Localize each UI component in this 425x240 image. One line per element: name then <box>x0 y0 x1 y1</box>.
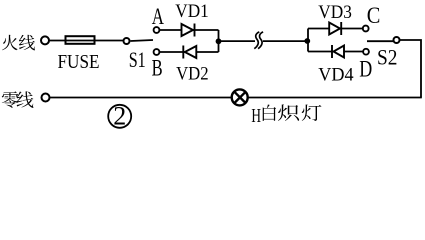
svg-text:B: B <box>152 55 163 80</box>
svg-text:C: C <box>367 3 381 28</box>
svg-text:D: D <box>359 57 372 82</box>
wire, S2 blade <box>367 40 394 42</box>
label 白炽灯 char 灯 <box>302 105 322 121</box>
svg-text:VD1: VD1 <box>175 1 209 22</box>
terminal D <box>363 49 369 55</box>
diode VD3 <box>329 22 341 35</box>
wire, neutral terminal to lamp <box>50 97 233 99</box>
fuse FUSE <box>66 36 95 44</box>
wire, lamp to right edge <box>248 97 422 99</box>
label 零线 char 零 <box>2 91 19 107</box>
switch S2 common terminal <box>394 37 400 43</box>
lamp H (incandescent) <box>232 89 248 105</box>
terminal B <box>154 49 160 55</box>
wire, middle link with break <box>219 40 256 42</box>
diode VD1 <box>182 24 195 37</box>
junction dot, right diode pair input <box>304 38 310 44</box>
terminal A <box>154 27 160 33</box>
svg-text:H: H <box>251 105 261 127</box>
wire, S2 to right edge and down to neutral <box>400 40 422 98</box>
svg-text:S2: S2 <box>377 44 398 69</box>
node number ② circle <box>108 105 131 128</box>
wire, junction to terminal D <box>308 51 363 53</box>
wire, live terminal to S1 through fuse <box>49 40 123 42</box>
wire, left junction column <box>218 30 220 52</box>
svg-text:2: 2 <box>113 102 126 131</box>
terminal, neutral wire input <box>42 94 50 102</box>
svg-text:A: A <box>152 4 164 29</box>
terminal, live wire input <box>41 36 49 44</box>
label 白炽灯 char 白 <box>263 104 276 120</box>
diode VD2 <box>183 46 196 59</box>
wire, right junction column <box>307 29 309 52</box>
label 火线 (live wire) <box>2 35 18 51</box>
terminal C <box>363 26 369 32</box>
junction dot, left diode pair output <box>216 38 222 44</box>
diode VD4 <box>332 45 344 58</box>
label 火线 char 线 <box>19 35 35 51</box>
wire, junction to terminal C <box>308 28 363 30</box>
label 白炽灯 char 炽 <box>278 104 299 121</box>
svg-text:VD4: VD4 <box>318 64 354 85</box>
wire, terminal B to junction column <box>160 51 219 53</box>
svg-text:FUSE: FUSE <box>58 51 100 73</box>
svg-text:VD3: VD3 <box>318 2 352 23</box>
wire, terminal A to junction column <box>160 29 219 31</box>
wire, S1 blade <box>131 40 154 41</box>
switch S1 common terminal <box>124 38 130 44</box>
svg-text:S1: S1 <box>129 47 146 72</box>
label 零线 char 线 <box>16 91 33 108</box>
break symbol (interrupted wire squiggles) <box>254 32 263 49</box>
svg-text:VD2: VD2 <box>176 63 209 84</box>
